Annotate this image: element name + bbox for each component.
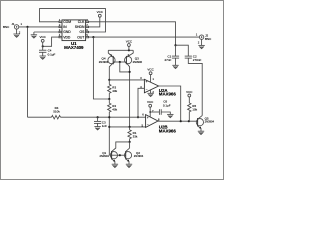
svg-text:VCC: VCC — [147, 68, 154, 72]
svg-text:10k: 10k — [192, 108, 197, 112]
svg-text:MAX7409: MAX7409 — [64, 45, 84, 50]
svg-text:OUT: OUT — [77, 35, 84, 39]
svg-text:COM: COM — [63, 20, 71, 24]
svg-text:2N3904: 2N3904 — [205, 120, 215, 124]
svg-text:+: + — [146, 80, 148, 84]
svg-text:IN: IN — [63, 25, 67, 29]
svg-text:270nF: 270nF — [193, 58, 202, 62]
svg-text:SHDN: SHDN — [75, 25, 85, 29]
svg-text:J1: J1 — [11, 22, 15, 26]
svg-text:VCC: VCC — [97, 10, 104, 14]
svg-text:40k: 40k — [112, 89, 117, 93]
svg-text:VCC: VCC — [40, 35, 47, 39]
svg-text:−: − — [147, 123, 149, 127]
svg-text:0.1µF: 0.1µF — [163, 103, 171, 107]
svg-text:VCC: VCC — [147, 100, 154, 104]
svg-text:VCC: VCC — [126, 40, 133, 44]
svg-text:2N3906: 2N3906 — [99, 60, 109, 64]
svg-text:CLK: CLK — [78, 20, 85, 24]
svg-text:2N3904: 2N3904 — [99, 154, 109, 158]
svg-text:BNC: BNC — [3, 25, 10, 29]
svg-text:2N3906: 2N3906 — [133, 60, 143, 64]
svg-text:+: + — [147, 116, 149, 120]
svg-text:−: − — [146, 87, 148, 91]
svg-text:510k: 510k — [53, 110, 60, 114]
svg-text:OS: OS — [79, 30, 85, 34]
svg-text:2N3904: 2N3904 — [134, 154, 144, 158]
svg-text:GND: GND — [63, 30, 71, 34]
svg-text:VDD: VDD — [63, 35, 71, 39]
svg-text:1nF: 1nF — [102, 124, 107, 128]
svg-text:BNC: BNC — [205, 37, 212, 41]
svg-text:33k: 33k — [133, 134, 138, 138]
svg-text:VCC: VCC — [186, 90, 193, 94]
svg-text:0.1µF: 0.1µF — [48, 52, 56, 56]
svg-text:MAX966: MAX966 — [159, 128, 177, 133]
svg-text:MAX966: MAX966 — [159, 92, 177, 97]
svg-text:27nF: 27nF — [164, 58, 171, 62]
svg-text:40k: 40k — [112, 108, 117, 112]
